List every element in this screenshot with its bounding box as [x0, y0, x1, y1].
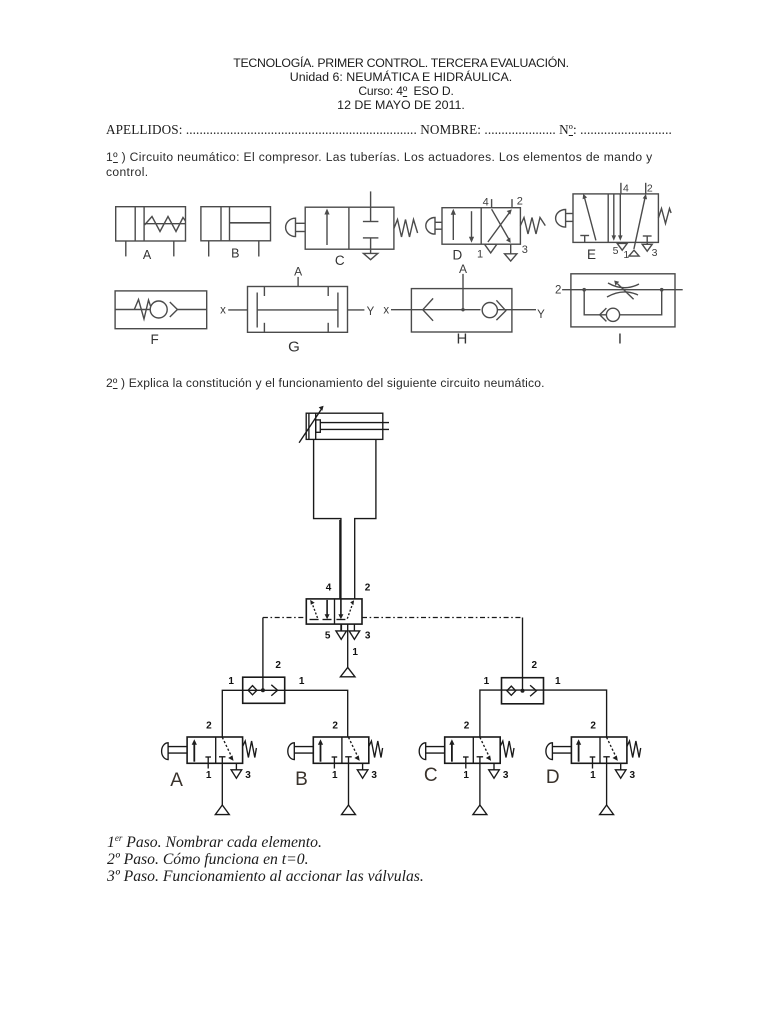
svg-text:3: 3 — [503, 770, 509, 781]
pressure source (valve D) — [600, 805, 614, 815]
wire shuttle right to valve D — [544, 690, 607, 737]
pressure source (valve B) — [342, 805, 356, 815]
svg-text:2: 2 — [517, 196, 523, 208]
exhaust 5 (5/2 valve) — [336, 624, 347, 639]
svg-text:3: 3 — [245, 770, 251, 781]
valve B (3/2 pushbutton, spring return) — [288, 737, 383, 769]
svg-text:3: 3 — [371, 770, 377, 781]
svg-text:1: 1 — [463, 770, 469, 781]
svg-text:1: 1 — [484, 676, 490, 687]
svg-text:2: 2 — [332, 721, 338, 732]
exhaust 3 (valve D) — [615, 763, 626, 778]
svg-text:2: 2 — [647, 183, 653, 195]
exhaust 3 (valve A) — [231, 763, 242, 778]
valve D (3/2 pushbutton, spring return) — [546, 737, 641, 769]
svg-text:B: B — [231, 247, 239, 261]
svg-text:A: A — [170, 770, 183, 791]
svg-text:D: D — [453, 247, 463, 262]
svg-text:2: 2 — [206, 721, 212, 732]
symbol F: spring check valve — [115, 291, 207, 329]
svg-text:A: A — [143, 248, 152, 262]
pilot line right (dashed) — [362, 617, 523, 619]
valve C (3/2 pushbutton, spring return) — [419, 737, 514, 769]
svg-text:D: D — [546, 767, 560, 788]
svg-text:1: 1 — [332, 770, 338, 781]
svg-text:2: 2 — [532, 660, 538, 671]
svg-text:Y: Y — [367, 306, 375, 318]
svg-text:2: 2 — [275, 660, 281, 671]
svg-text:x: x — [383, 305, 389, 317]
svg-text:3: 3 — [652, 247, 658, 259]
symbol D: 4/2 pushbutton valve — [426, 199, 546, 261]
wire shuttle left to valve A — [222, 690, 242, 737]
svg-text:1: 1 — [299, 676, 305, 687]
cushioning arrow on cylinder — [299, 406, 324, 443]
svg-text:4: 4 — [326, 583, 332, 594]
pressure source (valve C) — [473, 805, 487, 815]
header title block — [34, 56, 768, 112]
shuttle valve OR (right) — [502, 618, 544, 704]
svg-text:2: 2 — [464, 721, 470, 732]
svg-text:1: 1 — [228, 676, 234, 687]
svg-text:x: x — [220, 305, 226, 317]
symbol B: double-acting cylinder — [201, 207, 271, 257]
exhaust 3 (valve B) — [357, 763, 368, 778]
svg-text:2: 2 — [590, 721, 596, 732]
svg-text:5: 5 — [325, 631, 331, 642]
question 2 text — [106, 376, 545, 390]
name line — [106, 122, 672, 138]
svg-text:2: 2 — [365, 583, 371, 594]
wire shuttle left to valve B — [285, 690, 348, 737]
svg-text:Y: Y — [537, 309, 545, 321]
pressure source (5/2 valve) — [340, 667, 355, 676]
cylinder (double-acting actuator) — [306, 413, 389, 439]
symbol E: 5/2 pushbutton valve — [556, 183, 672, 256]
pilot line left (dashed) — [263, 617, 306, 619]
wire G to Y — [348, 309, 365, 311]
supply line (valve C) — [479, 763, 481, 805]
symbol H: quick exhaust valve — [411, 274, 512, 332]
svg-text:F: F — [150, 332, 158, 347]
svg-text:C: C — [335, 253, 345, 268]
svg-text:I: I — [618, 331, 622, 348]
svg-text:4: 4 — [623, 183, 629, 195]
symbol C: 3/2 pushbutton valve — [286, 191, 418, 259]
svg-text:3: 3 — [630, 770, 636, 781]
svg-text:1: 1 — [477, 249, 483, 261]
svg-text:2: 2 — [555, 285, 561, 297]
wire H to Y — [512, 309, 536, 311]
svg-text:G: G — [288, 339, 300, 356]
svg-text:A: A — [459, 262, 467, 276]
svg-text:A: A — [294, 265, 302, 279]
symbol G: double-rod cylinder — [248, 277, 348, 332]
steps italic text — [107, 830, 424, 886]
wire cylinder left port to valve port 4 — [314, 439, 341, 599]
symbol A: single-acting cylinder, spring return — [116, 207, 186, 257]
svg-text:C: C — [424, 765, 438, 786]
svg-text:1: 1 — [206, 770, 212, 781]
svg-text:4: 4 — [483, 197, 489, 209]
svg-text:B: B — [295, 769, 308, 790]
wire X to H — [391, 309, 411, 311]
valve 5/2 pilot operated — [306, 599, 362, 624]
supply line (valve A) — [221, 763, 223, 805]
supply line 1 (5/2 valve) — [347, 624, 349, 667]
svg-text:1: 1 — [590, 770, 596, 781]
symbol I: one-way flow control valve — [562, 274, 683, 327]
supply line (valve D) — [606, 763, 608, 805]
wire shuttle right to valve C — [480, 690, 502, 737]
svg-text:3: 3 — [365, 631, 371, 642]
valve A (3/2 pushbutton, spring return) — [162, 737, 257, 769]
svg-text:5: 5 — [613, 245, 619, 257]
exhaust 3 (valve C) — [489, 763, 500, 778]
question 1 text — [106, 150, 656, 180]
wire X to G — [228, 309, 247, 311]
svg-text:E: E — [587, 247, 596, 262]
supply line (valve B) — [348, 763, 350, 805]
exhaust 3 (5/2 valve) — [349, 624, 360, 639]
svg-text:H: H — [456, 331, 467, 348]
pressure source (valve A) — [215, 805, 229, 815]
wire cylinder right port to valve port 2 — [355, 439, 376, 599]
svg-text:3: 3 — [522, 244, 528, 256]
shuttle valve OR (left) — [243, 618, 285, 704]
svg-text:1: 1 — [555, 676, 561, 687]
svg-text:1: 1 — [623, 249, 629, 261]
svg-text:1: 1 — [352, 647, 358, 658]
